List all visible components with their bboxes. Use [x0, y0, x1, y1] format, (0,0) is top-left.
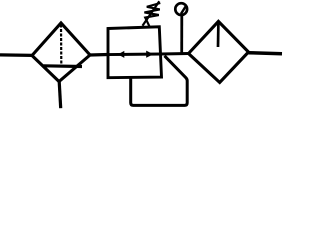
regulator R1 body (square)	[108, 27, 162, 78]
regulator R1 adjustment arrow	[143, 1, 160, 26]
lubricator L1 drop line	[217, 23, 220, 48]
pressure gauge G1 stem	[180, 16, 183, 54]
filter F1 separator chord	[44, 64, 83, 68]
regulator R1 pilot feedback line	[131, 56, 188, 106]
regulator R1 right arrowhead	[146, 51, 153, 58]
regulator R1 spring (zigzag)	[144, 3, 160, 27]
regulator R1 left arrowhead	[118, 51, 125, 58]
pressure gauge G1 circle	[175, 3, 187, 15]
wire inlet line	[0, 53, 32, 57]
wire regulator to lubricator	[161, 52, 189, 56]
filter F1 element (dashed line)	[60, 25, 62, 64]
filter F1 body (diamond)	[32, 23, 90, 82]
filter F1 drain stem	[59, 82, 61, 109]
pressure gauge G1 needle	[181, 6, 186, 14]
lubricator L1 body (diamond)	[189, 21, 249, 82]
wire filter to regulator	[90, 53, 108, 57]
wire outlet line	[249, 53, 283, 54]
regulator R1 flow line	[108, 53, 161, 56]
